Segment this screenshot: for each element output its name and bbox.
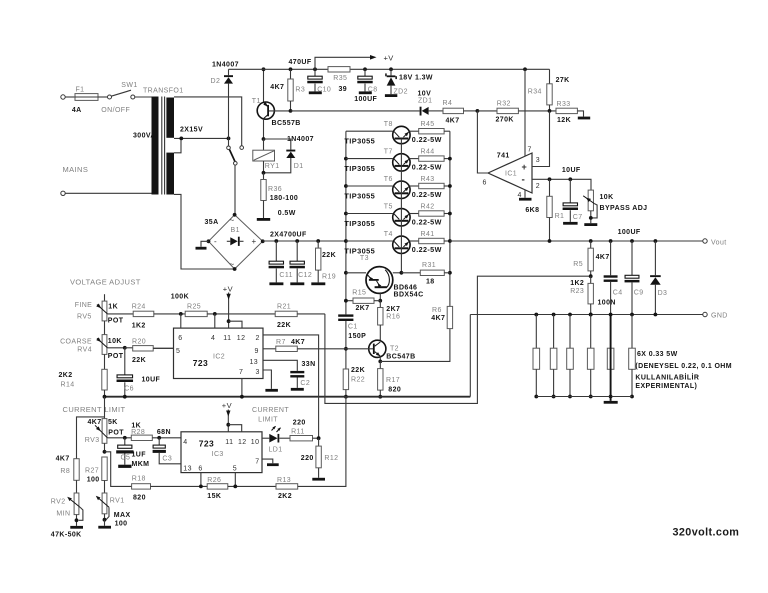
wire sense line from divider <box>325 276 591 403</box>
svg-text:+V: +V <box>223 285 233 294</box>
svg-text:BD646: BD646 <box>394 284 418 291</box>
svg-text:6X 0.33 5W: 6X 0.33 5W <box>637 351 678 358</box>
svg-text:R32: R32 <box>497 101 511 108</box>
svg-text:T7: T7 <box>384 148 393 155</box>
ground IC3 pin7 <box>262 459 273 463</box>
svg-text:220: 220 <box>301 455 314 462</box>
svg-text:GND: GND <box>711 313 728 320</box>
svg-text:11: 11 <box>225 439 233 446</box>
svg-text:4K7: 4K7 <box>88 419 102 426</box>
capacitor C8 100UF <box>363 67 367 71</box>
svg-text:723: 723 <box>199 438 214 448</box>
wire T1 base line to ZD1 <box>291 110 420 112</box>
svg-text:R12: R12 <box>324 455 338 462</box>
svg-text:1N4007: 1N4007 <box>287 136 314 143</box>
capacitor C1 150P <box>338 314 353 316</box>
svg-text:ZD2: ZD2 <box>394 89 408 96</box>
resistor R6 4K7 <box>447 306 452 328</box>
svg-text:R17: R17 <box>386 377 400 384</box>
wire Vout rail <box>450 240 703 242</box>
svg-text:T6: T6 <box>384 176 393 183</box>
node T1 collector junction <box>262 137 266 141</box>
svg-text:R15: R15 <box>352 290 366 297</box>
capacitor C10 470UF <box>314 69 316 76</box>
svg-text:0.22-5W: 0.22-5W <box>412 190 442 199</box>
svg-text:68N: 68N <box>157 429 171 436</box>
svg-text:6: 6 <box>198 465 202 472</box>
wire IC2 pin2 to current limit node <box>263 335 319 438</box>
transistor T7 TIP3055 <box>344 157 348 161</box>
svg-text:VOLTAGE ADJUST: VOLTAGE ADJUST <box>70 278 141 287</box>
svg-text:BC547B: BC547B <box>386 354 415 361</box>
svg-text:4K7: 4K7 <box>270 84 284 91</box>
svg-text:3: 3 <box>256 369 260 376</box>
wire secondary centre-tap bracket <box>174 138 181 152</box>
svg-text:9: 9 <box>255 348 259 355</box>
wire 741 pin7 supply <box>523 67 527 71</box>
svg-text:3: 3 <box>536 157 540 164</box>
svg-text:2K2: 2K2 <box>278 493 292 500</box>
svg-text:5K: 5K <box>108 419 118 426</box>
svg-text:7: 7 <box>239 369 243 376</box>
node mains-live terminal <box>61 95 65 99</box>
svg-text:C8: C8 <box>368 87 378 94</box>
svg-text:RV1: RV1 <box>110 498 125 505</box>
resistor R45 0.22 5W <box>410 130 419 132</box>
svg-text:7: 7 <box>255 459 259 466</box>
svg-text:LIMIT: LIMIT <box>258 417 278 424</box>
diode D2 1N4007 <box>228 69 230 75</box>
svg-text:12K: 12K <box>557 117 571 124</box>
wire bridge output rail <box>263 240 393 242</box>
transistor T1 BC557B <box>257 102 274 119</box>
svg-text:4A: 4A <box>72 107 82 114</box>
resistor R36 180-100 0.5W <box>263 173 265 180</box>
svg-text:320volt.com: 320volt.com <box>673 527 740 539</box>
svg-text:R26: R26 <box>207 477 221 484</box>
svg-text:R23: R23 <box>570 288 584 295</box>
svg-text:1UF: 1UF <box>132 452 147 459</box>
transformer TRANSFO1 primary winding <box>152 97 159 195</box>
svg-text:CURRENT: CURRENT <box>252 407 289 414</box>
resistor R32 270K <box>477 110 497 112</box>
svg-text:100: 100 <box>87 477 100 484</box>
svg-text:2X4700UF: 2X4700UF <box>270 232 307 239</box>
svg-text:100N: 100N <box>598 300 616 307</box>
ground B1 minus <box>201 241 209 247</box>
wire IC3 pin6 <box>200 473 202 487</box>
svg-text:47K-50K: 47K-50K <box>51 532 82 539</box>
diode D3 <box>654 239 658 243</box>
svg-text:B1: B1 <box>231 227 240 234</box>
svg-text:C7: C7 <box>573 214 583 221</box>
svg-text:TRANSFO1: TRANSFO1 <box>143 88 184 95</box>
svg-text:T2: T2 <box>390 346 399 353</box>
svg-text:2: 2 <box>536 183 540 190</box>
svg-text:C4: C4 <box>613 290 623 297</box>
svg-text:12: 12 <box>238 439 247 446</box>
wire mains neutral to primary bottom <box>65 192 151 194</box>
svg-text:R19: R19 <box>322 274 336 281</box>
resistor R1 6K8 <box>548 177 552 181</box>
svg-text:4: 4 <box>518 192 522 199</box>
resistor R18 820 <box>132 484 151 489</box>
svg-text:R11: R11 <box>291 428 305 435</box>
transistor T8 TIP3055 <box>346 130 393 132</box>
switch SW1 <box>108 95 112 99</box>
wire +V rail to T1 emitter <box>263 69 265 102</box>
svg-text:POT: POT <box>108 430 124 437</box>
resistor R33 12K <box>556 108 577 113</box>
svg-text:T3: T3 <box>360 255 369 262</box>
svg-text:12: 12 <box>237 335 246 342</box>
svg-text:T1: T1 <box>252 98 261 105</box>
svg-text:R6: R6 <box>432 307 442 314</box>
wire switch to transformer primary <box>135 96 152 98</box>
svg-text:22K: 22K <box>351 367 365 374</box>
svg-text:RV3: RV3 <box>85 437 100 444</box>
potentiometer 10K BYPASS ADJ <box>588 190 593 211</box>
transistor T4 TIP3055 <box>344 239 348 243</box>
svg-text:C2: C2 <box>300 380 310 387</box>
svg-text:10: 10 <box>251 439 260 446</box>
svg-text:820: 820 <box>388 386 401 393</box>
resistor R23 1K2 <box>590 276 592 283</box>
svg-text:COARSE: COARSE <box>60 339 92 346</box>
svg-text:-: - <box>214 237 217 246</box>
resistor R19 22K bleeder <box>316 239 320 243</box>
wire IC3 pin5 <box>234 473 236 487</box>
svg-text:RV5: RV5 <box>77 314 92 321</box>
op-amp IC1 741 <box>488 153 532 193</box>
potentiometer RV5 1K FINE <box>104 294 106 301</box>
capacitor C3 68N <box>158 438 160 445</box>
svg-text:0.22-5W: 0.22-5W <box>412 217 442 226</box>
svg-text:100UF: 100UF <box>618 229 641 236</box>
resistor R25 100K <box>179 312 183 316</box>
svg-text:R28: R28 <box>131 429 145 436</box>
svg-text:TIP3055: TIP3055 <box>344 191 375 200</box>
svg-text:22K: 22K <box>322 252 336 259</box>
resistor R21 22K <box>275 311 297 316</box>
svg-text:+: + <box>522 162 528 172</box>
svg-text:MKM: MKM <box>132 461 150 468</box>
svg-text:~: ~ <box>230 216 235 225</box>
node op-amp output feedback junction <box>476 109 480 113</box>
svg-text:R42: R42 <box>421 203 435 210</box>
svg-text:22K: 22K <box>277 322 291 329</box>
svg-text:0.22-5W: 0.22-5W <box>412 162 442 171</box>
svg-text:R7: R7 <box>276 339 286 346</box>
svg-text:C3: C3 <box>162 455 172 462</box>
relay contact <box>228 138 230 145</box>
svg-text:33N: 33N <box>302 361 316 368</box>
svg-text:C10: C10 <box>317 87 331 94</box>
zener ZD1 10V <box>420 107 422 116</box>
capacitor C11 4700UF <box>274 239 278 243</box>
svg-text:0.5W: 0.5W <box>278 210 296 217</box>
svg-text:POT: POT <box>108 353 124 360</box>
svg-text:RV2: RV2 <box>51 499 66 506</box>
capacitor C7 10UF <box>568 177 572 181</box>
svg-text:R5: R5 <box>573 261 583 268</box>
svg-text:R41: R41 <box>421 231 435 238</box>
wire secondary top to relay NO contact <box>174 97 242 146</box>
svg-text:BYPASS ADJ: BYPASS ADJ <box>600 205 648 212</box>
svg-text:R31: R31 <box>422 262 436 269</box>
svg-text:+V: +V <box>222 401 232 410</box>
svg-text:BC557B: BC557B <box>272 120 301 127</box>
svg-text:R22: R22 <box>351 377 365 384</box>
ground IC2 pin3 <box>263 370 271 389</box>
svg-text:10UF: 10UF <box>562 167 581 174</box>
wire T1 collector to D1 <box>264 139 291 150</box>
resistor R42 0.22 5W <box>410 213 419 215</box>
svg-text:D3: D3 <box>658 290 668 297</box>
svg-text:R21: R21 <box>277 303 291 310</box>
svg-text:R3: R3 <box>295 87 305 94</box>
capacitor C2 33N on pin13 <box>263 360 297 371</box>
svg-text:15K: 15K <box>207 493 221 500</box>
wire ZD1 to R4 <box>429 110 443 112</box>
wire centre tap to relay contact <box>181 137 229 139</box>
svg-text:R18: R18 <box>132 476 146 483</box>
svg-text:741: 741 <box>497 153 510 160</box>
svg-text:10V: 10V <box>418 91 432 98</box>
resistor R41 0.22 5W <box>410 240 419 242</box>
capacitor C6 10UF <box>107 347 124 349</box>
wire collector bus <box>345 131 347 314</box>
svg-text:FINE: FINE <box>75 302 93 309</box>
svg-text:IC1: IC1 <box>505 171 517 178</box>
svg-text:KULLANILABİLİR: KULLANILABİLİR <box>635 374 699 382</box>
svg-text:220: 220 <box>293 420 306 427</box>
resistor R34 27K <box>549 69 551 84</box>
svg-text:270K: 270K <box>496 117 514 124</box>
svg-text:R16: R16 <box>386 314 400 321</box>
wire RV3 wiper row <box>107 437 131 439</box>
svg-text:7: 7 <box>528 147 532 154</box>
wire ground bus riser to GND rail <box>469 315 471 397</box>
potentiometer RV2 MIN <box>74 493 79 515</box>
svg-text:4K7: 4K7 <box>596 254 610 261</box>
potentiometer RV3 4K7-5K <box>104 397 106 419</box>
diode D1 1N4007 <box>286 150 295 152</box>
svg-text:10K: 10K <box>108 338 122 345</box>
wire shunt centre ground <box>610 315 612 401</box>
relay coil RY1 <box>263 139 265 150</box>
ground shunt bank <box>604 401 618 404</box>
svg-text:820: 820 <box>133 495 146 502</box>
svg-text:EXPERIMENTAL): EXPERIMENTAL) <box>635 383 697 390</box>
resistor R20 22K <box>125 347 133 349</box>
svg-text:100UF: 100UF <box>354 96 377 103</box>
svg-text:18: 18 <box>426 279 435 286</box>
wire T1 base to R3 <box>269 110 291 112</box>
svg-text:2K2: 2K2 <box>59 372 73 379</box>
svg-text:4K7: 4K7 <box>291 339 305 346</box>
node base bus junction <box>400 271 404 275</box>
potentiometer RV1 100 MAX <box>102 493 107 514</box>
svg-text:POT: POT <box>108 318 124 325</box>
resistor R43 0.22 5W <box>410 185 419 187</box>
svg-text:1K: 1K <box>108 304 118 311</box>
resistor R7 4K7 on pin9 <box>263 348 276 350</box>
wire 741 pin2 input <box>532 179 591 190</box>
svg-text:R27: R27 <box>85 468 99 475</box>
svg-text:TIP3055: TIP3055 <box>344 219 375 228</box>
resistor R16 2K7 <box>379 301 381 308</box>
svg-text:4K7: 4K7 <box>446 118 460 125</box>
resistor R35 39 <box>328 67 350 72</box>
svg-text:2K7: 2K7 <box>356 305 370 312</box>
resistor R3 4K7 <box>289 67 293 71</box>
svg-text:6K8: 6K8 <box>525 207 539 214</box>
svg-text:IC2: IC2 <box>213 354 225 361</box>
wire IC2 pin6 <box>180 314 182 328</box>
ground 741 pin4 <box>524 190 526 198</box>
svg-text:TIP3055: TIP3055 <box>344 137 375 146</box>
svg-text:6: 6 <box>483 180 487 187</box>
wire base bus <box>400 139 402 273</box>
node T3 base divider junction <box>379 293 381 300</box>
svg-text:2K7: 2K7 <box>386 306 400 313</box>
svg-text:RY1: RY1 <box>265 163 280 170</box>
node +V takeoff <box>313 67 317 71</box>
svg-text:CURRENT LIMIT: CURRENT LIMIT <box>63 405 126 414</box>
svg-text:R14: R14 <box>61 382 75 389</box>
svg-text:BDX54C: BDX54C <box>394 291 424 298</box>
svg-text:4K7: 4K7 <box>431 315 445 322</box>
svg-text:1K2: 1K2 <box>570 280 584 287</box>
resistor R22 22K <box>343 369 348 390</box>
svg-text:4K7: 4K7 <box>56 456 70 463</box>
svg-text:1K2: 1K2 <box>132 322 146 329</box>
resistor R27 100 <box>102 457 107 481</box>
svg-text:13: 13 <box>250 359 259 366</box>
transformer core <box>161 97 163 195</box>
wire +V top rail <box>229 68 550 70</box>
svg-text:C9: C9 <box>634 290 644 297</box>
svg-text:100: 100 <box>115 521 128 528</box>
resistor R24 1K2 <box>124 347 126 349</box>
capacitor C5 1UF MKM <box>124 438 126 445</box>
svg-text:(DENEYSEL 0.22, 0.1 OHM: (DENEYSEL 0.22, 0.1 OHM <box>635 363 732 370</box>
svg-text:D2: D2 <box>211 78 221 85</box>
resistor R17 820 <box>379 361 381 368</box>
wire ground bus <box>105 396 471 398</box>
fuse F1 <box>75 94 98 101</box>
wire secondary bottom to bridge <box>174 194 235 269</box>
svg-text:T4: T4 <box>384 231 393 238</box>
svg-text:T5: T5 <box>384 203 393 210</box>
svg-text:ON/OFF: ON/OFF <box>101 107 130 114</box>
node GND terminal <box>703 312 707 316</box>
svg-text:6: 6 <box>178 335 182 342</box>
svg-text:27K: 27K <box>556 77 570 84</box>
node mains-neutral terminal <box>61 191 65 195</box>
svg-text:D1: D1 <box>294 163 304 170</box>
svg-text:TIP3055: TIP3055 <box>344 164 375 173</box>
svg-text:F1: F1 <box>76 87 85 94</box>
resistor R5 4K7 <box>589 239 593 243</box>
svg-text:IC3: IC3 <box>212 451 224 458</box>
wire relay pole to bridge top <box>234 165 236 215</box>
svg-text:R43: R43 <box>421 176 435 183</box>
IC2 723 regulator <box>174 328 264 378</box>
svg-text:10K: 10K <box>600 194 614 201</box>
wire IC2 pin5 <box>153 347 173 349</box>
potentiometer RV4 10K COARSE <box>102 335 107 355</box>
resistor R8 4K7 <box>77 417 105 459</box>
svg-text:723: 723 <box>193 358 208 368</box>
svg-text:R44: R44 <box>421 148 435 155</box>
svg-text:C11: C11 <box>279 272 293 279</box>
svg-text:C12: C12 <box>298 272 312 279</box>
svg-text:RV4: RV4 <box>77 347 92 354</box>
svg-text:R24: R24 <box>132 303 146 310</box>
svg-text:R33: R33 <box>557 101 571 108</box>
transformer secondary winding upper <box>166 98 174 138</box>
svg-text:470UF: 470UF <box>289 59 312 66</box>
svg-text:100K: 100K <box>171 293 189 300</box>
svg-text:5: 5 <box>233 465 237 472</box>
svg-text:R34: R34 <box>528 89 542 96</box>
wire IC2 pin7 to ground bus <box>241 379 243 397</box>
node Vout terminal <box>703 239 707 243</box>
wire 741 pin3 input <box>532 111 550 167</box>
svg-text:-: - <box>522 174 526 185</box>
svg-text:22K: 22K <box>132 357 146 364</box>
transistor T3 BD646/BDX54C <box>344 271 348 275</box>
svg-text:5: 5 <box>176 348 180 355</box>
svg-text:13: 13 <box>183 465 192 472</box>
svg-text:+: + <box>252 237 257 246</box>
svg-text:300VA: 300VA <box>133 133 156 140</box>
svg-text:Vout: Vout <box>711 240 727 247</box>
svg-text:1N4007: 1N4007 <box>212 62 239 69</box>
svg-text:T8: T8 <box>384 121 393 128</box>
svg-text:4: 4 <box>211 335 215 342</box>
bridge rectifier B1 35A <box>209 215 263 269</box>
svg-text:C6: C6 <box>124 386 134 393</box>
svg-text:R25: R25 <box>187 303 201 310</box>
svg-text:150P: 150P <box>348 333 366 340</box>
svg-text:180-100: 180-100 <box>270 195 299 202</box>
LED LD1 <box>262 437 269 439</box>
svg-text:0.22-5W: 0.22-5W <box>412 135 442 144</box>
wire GND output rail <box>470 314 702 316</box>
svg-text:R8: R8 <box>60 468 70 475</box>
svg-text:SW1: SW1 <box>121 82 137 89</box>
resistor R26 15K <box>207 484 228 489</box>
svg-text:R36: R36 <box>268 186 282 193</box>
resistor R28 1K <box>131 435 152 440</box>
svg-text:C1: C1 <box>348 324 358 331</box>
transistor T5 TIP3055 <box>344 212 348 216</box>
wire RV3 node to R18 <box>105 452 132 487</box>
svg-text:C5: C5 <box>121 455 131 462</box>
svg-text:R35: R35 <box>333 75 347 82</box>
svg-text:4: 4 <box>183 439 187 446</box>
svg-text:R20: R20 <box>132 339 146 346</box>
resistor R12 220 <box>318 438 320 446</box>
transformer secondary winding lower <box>166 153 174 195</box>
svg-text:2X15V: 2X15V <box>180 127 203 134</box>
svg-text:MAX: MAX <box>114 512 131 519</box>
transistor T6 TIP3055 <box>344 184 348 188</box>
svg-text:MAINS: MAINS <box>63 165 89 174</box>
